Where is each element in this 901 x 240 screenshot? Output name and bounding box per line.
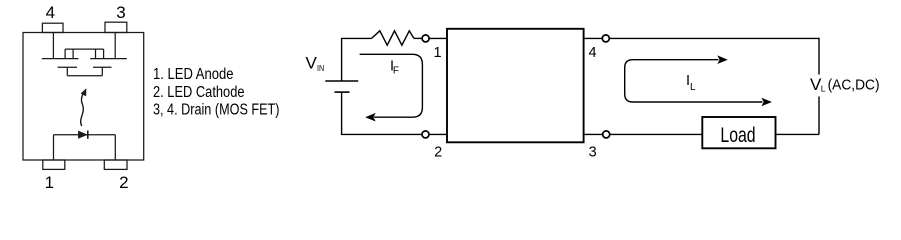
svg-text:3: 3 xyxy=(116,3,125,22)
svg-text:3, 4. Drain (MOS FET): 3, 4. Drain (MOS FET) xyxy=(153,101,280,118)
svg-text:(AC,DC): (AC,DC) xyxy=(828,76,880,93)
svg-text:2. LED Cathode: 2. LED Cathode xyxy=(153,84,245,101)
svg-text:L: L xyxy=(690,82,696,93)
svg-text:F: F xyxy=(393,66,399,77)
svg-text:2: 2 xyxy=(119,173,128,190)
svg-text:1: 1 xyxy=(45,173,54,190)
svg-text:L: L xyxy=(821,83,826,93)
svg-text:1. LED Anode: 1. LED Anode xyxy=(153,66,234,83)
svg-text:Load: Load xyxy=(720,124,755,147)
svg-text:4: 4 xyxy=(46,3,55,22)
svg-text:1: 1 xyxy=(433,45,441,61)
svg-text:2: 2 xyxy=(434,144,442,160)
svg-text:V: V xyxy=(306,53,318,72)
svg-text:3: 3 xyxy=(589,144,597,160)
svg-text:4: 4 xyxy=(589,45,597,61)
svg-text:IN: IN xyxy=(317,63,324,73)
